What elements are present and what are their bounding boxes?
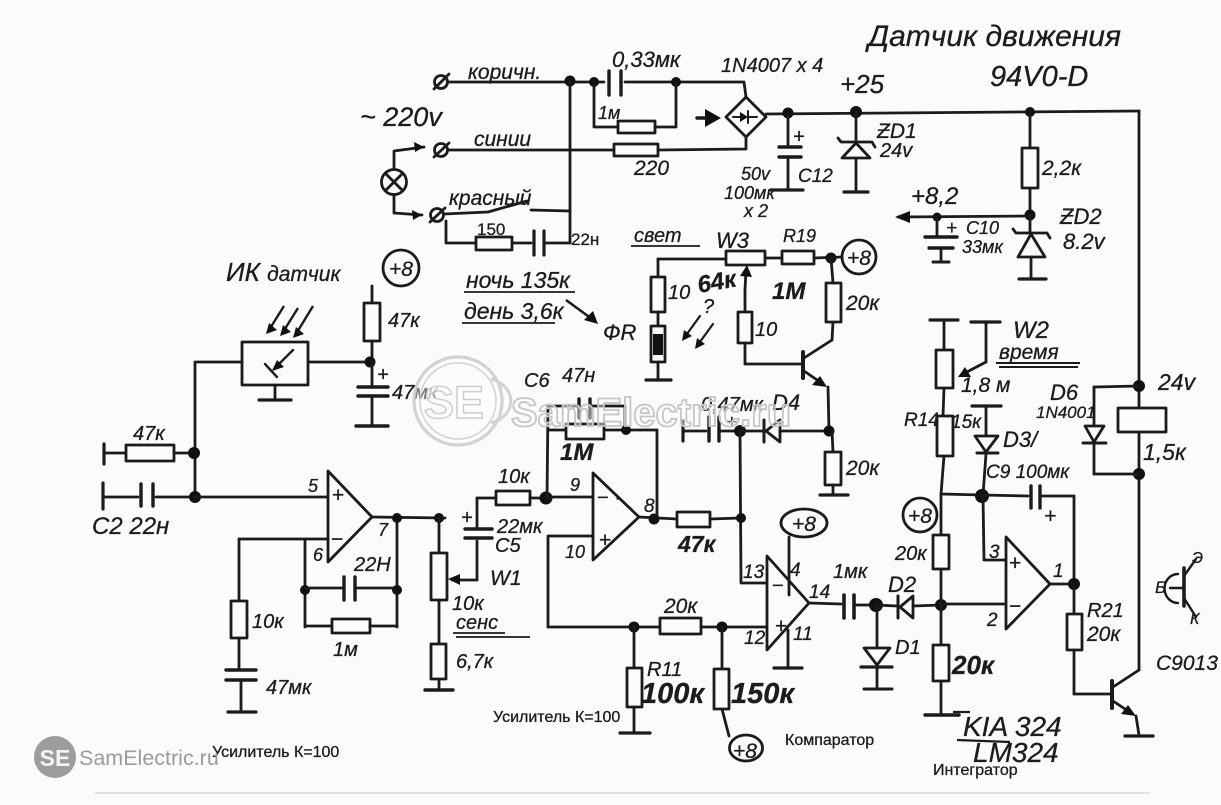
svg-text:10: 10 bbox=[565, 542, 585, 562]
photoresistor FR bbox=[651, 326, 665, 379]
svg-text:8: 8 bbox=[644, 496, 655, 517]
wire red to switch bbox=[444, 212, 488, 214]
wire main right vertical bbox=[1138, 111, 1141, 670]
svg-text:C2 22н: C2 22н bbox=[92, 513, 169, 540]
svg-text:20к: 20к bbox=[894, 543, 928, 565]
svg-text:К: К bbox=[1190, 611, 1201, 628]
resistor 20k pin12 bbox=[660, 618, 701, 634]
svg-text:24v: 24v bbox=[879, 140, 913, 162]
ground Q2 emitter bbox=[1125, 734, 1153, 737]
svg-text:+: + bbox=[775, 615, 787, 638]
SECTION: mains input bbox=[382, 71, 767, 255]
svg-text:50v: 50v bbox=[741, 164, 771, 184]
wire comparator output bbox=[809, 603, 841, 604]
svg-text:SE: SE bbox=[424, 377, 484, 428]
svg-text:11: 11 bbox=[793, 624, 813, 645]
wire fb2 right leg bbox=[656, 430, 659, 519]
resistor 20k to ground bbox=[825, 431, 841, 494]
node C2 bbox=[189, 491, 201, 503]
node after 1mk bbox=[869, 598, 883, 612]
svg-text:Э: Э bbox=[1192, 550, 1203, 567]
svg-text:R14: R14 bbox=[904, 410, 939, 431]
svg-text:+8: +8 bbox=[847, 247, 871, 270]
svg-text:1,5к: 1,5к bbox=[1143, 439, 1187, 465]
node fb2 bbox=[621, 425, 631, 435]
wire main vertical drop bbox=[569, 81, 572, 243]
node R11 bbox=[629, 622, 640, 633]
capacitor 47mk lower bbox=[226, 670, 256, 712]
resistor R21 20k bbox=[1067, 584, 1082, 694]
svg-text:12: 12 bbox=[744, 628, 766, 649]
svg-text:W1: W1 bbox=[490, 567, 522, 590]
svg-text:+8: +8 bbox=[908, 505, 932, 528]
svg-text:SamElectric.ru: SamElectric.ru bbox=[79, 746, 219, 770]
svg-text:1,8 м: 1,8 м bbox=[961, 374, 1010, 397]
svg-text:1м: 1м bbox=[598, 103, 620, 123]
svg-text:D6: D6 bbox=[1050, 380, 1079, 405]
ground 20k bbox=[820, 493, 848, 496]
svg-text:D3/: D3/ bbox=[1003, 427, 1039, 452]
node emitter D4 bbox=[824, 426, 835, 437]
wire brown to C bbox=[448, 81, 604, 84]
node output U1B bbox=[649, 514, 660, 525]
wire R14 bottom row bbox=[941, 494, 982, 495]
capacitor 47mk IR bbox=[358, 362, 388, 424]
svg-text:W2: W2 bbox=[1013, 317, 1049, 344]
wire box to node bbox=[308, 361, 370, 364]
svg-text:5: 5 bbox=[308, 476, 319, 496]
resistor 150 bbox=[476, 237, 512, 250]
resistor 1m parallel path bbox=[594, 83, 618, 127]
label sens bbox=[453, 612, 530, 637]
node 2,2k bbox=[1025, 107, 1035, 117]
svg-text:+: + bbox=[793, 126, 805, 148]
photodiode inside bbox=[265, 350, 293, 377]
arrow den to FR bbox=[566, 300, 598, 324]
label vremya bbox=[996, 341, 1080, 367]
wire box left down bbox=[195, 362, 242, 497]
label den 3,6k bbox=[462, 298, 565, 324]
capacitor 0,47mk bbox=[683, 417, 740, 441]
node integrator ref bbox=[975, 489, 989, 503]
wire blue bbox=[448, 149, 614, 152]
wire pin9 bbox=[546, 496, 593, 499]
wire output pin1 bbox=[1050, 583, 1074, 586]
wire 20k to comparator bbox=[701, 626, 767, 629]
svg-text:Усилитель К=100: Усилитель К=100 bbox=[212, 744, 339, 761]
diode D2 bbox=[876, 596, 941, 618]
svg-text:−: − bbox=[1009, 595, 1021, 618]
wire R19 to +8 bbox=[814, 257, 842, 258]
terminal red wire bbox=[430, 208, 445, 222]
svg-text:2: 2 bbox=[986, 610, 998, 631]
svg-text:100к: 100к bbox=[641, 678, 705, 710]
svg-text:свет: свет bbox=[634, 225, 682, 247]
wiper W2 arrow bbox=[958, 362, 986, 377]
node IR output bbox=[365, 357, 376, 368]
svg-text:сенс: сенс bbox=[456, 612, 498, 634]
transistor C9013 symbol bbox=[1165, 559, 1196, 617]
svg-text:10: 10 bbox=[668, 282, 690, 304]
svg-text:ƵD2: ƵD2 bbox=[1059, 204, 1102, 229]
op-amp U1B bbox=[593, 473, 639, 560]
terminal C2 left bbox=[101, 483, 104, 509]
wire fb2 left leg bbox=[547, 406, 548, 498]
svg-text:−: − bbox=[331, 528, 343, 551]
lamp bbox=[382, 170, 407, 195]
node pin9 input bbox=[540, 492, 553, 505]
svg-text:D1: D1 bbox=[895, 637, 921, 659]
svg-text:47мк: 47мк bbox=[266, 677, 313, 699]
wire emitter down bbox=[828, 387, 829, 431]
svg-text:20к: 20к bbox=[951, 650, 996, 680]
op-amp U1D integrator bbox=[1006, 537, 1050, 629]
svg-text:150к: 150к bbox=[731, 678, 795, 710]
wire pin11 ground bbox=[787, 630, 790, 667]
resistor 10 wiper bbox=[738, 290, 752, 364]
wire switch to vertical bbox=[531, 210, 570, 211]
ground IR box bbox=[259, 385, 291, 400]
capacitor C6 47n bbox=[548, 399, 625, 430]
wire 150 to cap bbox=[512, 242, 531, 245]
svg-text:x 2: x 2 bbox=[743, 201, 768, 221]
svg-text:C12: C12 bbox=[798, 166, 833, 187]
svg-text:C10: C10 bbox=[966, 218, 999, 238]
potentiometer W1 bbox=[431, 518, 447, 644]
wire down to 20k top bbox=[940, 494, 943, 535]
resistor 150k bbox=[714, 627, 729, 736]
svg-text:Датчик движения: Датчик движения bbox=[865, 20, 1121, 53]
svg-text:C6: C6 bbox=[524, 370, 550, 392]
svg-text:день 3,6к: день 3,6к bbox=[464, 298, 565, 324]
svg-text:красный: красный bbox=[449, 187, 532, 210]
transistor Q1 bbox=[803, 340, 832, 387]
supply +8 circle integrator bbox=[903, 498, 937, 532]
watermark corner logo bbox=[34, 736, 76, 778]
arrows to FR bbox=[682, 316, 713, 349]
op-amp U1C comparator bbox=[767, 556, 809, 650]
SECTION: power supply right bbox=[766, 106, 1139, 670]
svg-text:синии: синии bbox=[474, 128, 531, 151]
svg-text:− ·: − · bbox=[597, 487, 621, 509]
svg-text:20к: 20к bbox=[845, 457, 880, 480]
diode D6 flyback bbox=[1083, 386, 1139, 474]
svg-text:C5: C5 bbox=[495, 535, 521, 557]
svg-text:220: 220 bbox=[633, 157, 669, 180]
svg-text:1М: 1М bbox=[560, 439, 594, 466]
wire top light row bbox=[658, 258, 726, 261]
capacitor 1mk bbox=[844, 595, 876, 618]
node relay top bbox=[1133, 380, 1145, 392]
svg-text:1мк: 1мк bbox=[833, 561, 869, 583]
svg-text:+: + bbox=[599, 529, 611, 552]
resistor 10 upper bbox=[651, 259, 665, 326]
svg-text:C9 100мк: C9 100мк bbox=[986, 462, 1070, 483]
resistor 10k to cap bbox=[231, 539, 247, 668]
node ZD1 bbox=[850, 106, 862, 118]
svg-text:1М: 1М bbox=[772, 278, 806, 305]
wire pin4 supply bbox=[788, 537, 791, 595]
node C10 bbox=[933, 213, 942, 222]
resistor 6,7k bbox=[431, 644, 446, 689]
wire +25 rail bbox=[766, 111, 1139, 114]
svg-text:время: время bbox=[999, 341, 1059, 364]
bridge inner diode bbox=[733, 111, 757, 123]
IR sensor box bbox=[242, 342, 308, 385]
wire 220 to bridge bottom bbox=[658, 137, 746, 150]
svg-text:8.2v: 8.2v bbox=[1063, 229, 1107, 254]
zener ZD1 bbox=[838, 112, 875, 192]
svg-text:C9013: C9013 bbox=[1156, 652, 1218, 675]
wire C to bridge top bbox=[625, 82, 746, 97]
resistor 10k series bbox=[477, 491, 546, 505]
svg-text:−: − bbox=[772, 575, 784, 597]
scan line bottom bbox=[95, 792, 1150, 794]
wire pin10 bbox=[548, 536, 593, 627]
node right of cap bbox=[671, 77, 681, 87]
label svet bbox=[631, 225, 700, 247]
resistor 1m feedback bbox=[305, 619, 397, 633]
node 1m tap bbox=[589, 77, 599, 87]
diode D4 bbox=[740, 420, 829, 442]
op-amp U1A bbox=[328, 471, 372, 562]
transistor Q2 output bbox=[1112, 670, 1139, 735]
SECTION: second amplifier bbox=[540, 399, 742, 627]
svg-text:6: 6 bbox=[313, 545, 324, 565]
node fb left bbox=[300, 585, 310, 595]
svg-text:+: + bbox=[332, 484, 344, 507]
node C12 bbox=[783, 108, 794, 119]
resistor R11 100k bbox=[627, 627, 642, 732]
SECTION: watermarks bbox=[34, 306, 1150, 793]
svg-text:47к: 47к bbox=[677, 531, 717, 557]
svg-text:20к: 20к bbox=[1086, 623, 1121, 646]
wire pin12 row bbox=[548, 626, 660, 629]
svg-text:SE: SE bbox=[40, 745, 71, 771]
svg-text:R21: R21 bbox=[1087, 600, 1124, 622]
svg-text:+8,2: +8,2 bbox=[911, 183, 958, 210]
watermark center logo bbox=[414, 357, 511, 445]
wire lamp arrow up bbox=[394, 147, 424, 169]
svg-text:D2: D2 bbox=[888, 572, 916, 597]
svg-text:7: 7 bbox=[378, 520, 389, 540]
ground 6,7k bbox=[425, 688, 453, 691]
wire +8,2 arrow bbox=[898, 216, 1030, 217]
svg-text:20к: 20к bbox=[845, 292, 880, 315]
resistor 20k upper bbox=[933, 535, 949, 605]
zener ZD2 bbox=[1013, 215, 1050, 279]
svg-text:+: + bbox=[1044, 505, 1056, 528]
wire R21 to base bbox=[1074, 693, 1111, 696]
SECTION: integrator and timer bbox=[903, 320, 1153, 736]
wire pin5 bbox=[195, 496, 328, 499]
switch blade bbox=[488, 201, 527, 212]
SECTION: relay output bbox=[1083, 380, 1196, 617]
svg-text:+: + bbox=[946, 218, 957, 239]
ground 20k lower bbox=[925, 713, 959, 716]
wire output U1A bbox=[372, 517, 445, 518]
svg-text:100мк: 100мк bbox=[724, 183, 776, 203]
svg-text:13: 13 bbox=[743, 562, 765, 583]
terminal brown wire bbox=[434, 74, 449, 89]
svg-text:+: + bbox=[377, 364, 389, 386]
supply +8 circle IR bbox=[383, 250, 419, 286]
svg-text:Усилитель К=100: Усилитель К=100 bbox=[493, 709, 620, 726]
svg-text:ФR: ФR bbox=[603, 320, 636, 345]
capacitor C5 22mk bbox=[465, 498, 492, 580]
svg-text:22н: 22н bbox=[571, 230, 599, 249]
ground 47mk bbox=[356, 424, 388, 427]
svg-text:Компаратор: Компаратор bbox=[785, 732, 874, 749]
potentiometer W2 bbox=[936, 350, 953, 416]
wire D4 node down to comparator bbox=[740, 431, 767, 583]
wire cap to vertical bbox=[546, 242, 570, 245]
wire feedback right leg bbox=[396, 518, 399, 627]
svg-text:47к: 47к bbox=[133, 423, 166, 445]
svg-text:22Н: 22Н bbox=[353, 554, 391, 576]
node +8,2 bbox=[1025, 210, 1036, 221]
node output bbox=[1068, 578, 1080, 590]
bridge rectifier 1N4007 x4 bbox=[726, 97, 766, 137]
resistor 47k output bbox=[677, 512, 741, 527]
svg-text:W3: W3 bbox=[716, 228, 750, 253]
node 150k bbox=[717, 622, 728, 633]
terminal blue wire bbox=[434, 143, 449, 157]
potentiometer W3 bbox=[726, 251, 765, 265]
ground FR bbox=[646, 378, 671, 381]
svg-text:2,2к: 2,2к bbox=[1041, 157, 1082, 180]
node D4 anode bbox=[734, 425, 746, 437]
connector plug at bridge bbox=[697, 109, 721, 127]
IR arrows bbox=[266, 306, 313, 338]
resistor 47k input bbox=[104, 445, 193, 461]
svg-text:+: + bbox=[1009, 552, 1021, 575]
svg-text:+8: +8 bbox=[792, 513, 816, 536]
svg-text:+25: +25 bbox=[840, 69, 885, 99]
svg-text:4: 4 bbox=[790, 560, 801, 581]
rail W2 left bbox=[930, 320, 958, 350]
svg-text:94V0-D: 94V0-D bbox=[990, 61, 1088, 93]
capacitor 0,33mk bbox=[609, 71, 621, 95]
node 47k bbox=[188, 447, 200, 459]
diode D1 bbox=[861, 606, 892, 687]
SECTION: comparator bbox=[548, 509, 947, 761]
svg-text:1N4007 x 4: 1N4007 x 4 bbox=[721, 55, 823, 77]
SECTION: photoresistor / W3 bbox=[646, 240, 876, 583]
resistor 220 bbox=[614, 144, 658, 156]
svg-text:10к: 10к bbox=[252, 611, 285, 633]
resistor 47k pullup bbox=[364, 286, 380, 362]
wire pin6 bbox=[239, 538, 328, 541]
terminal 0,47mk left bbox=[681, 421, 684, 441]
node R19 bbox=[826, 253, 837, 264]
rail W2 right bbox=[971, 322, 1000, 362]
wire output U1B bbox=[639, 517, 677, 519]
supply +8 circle W3 bbox=[842, 240, 876, 274]
svg-text:15к: 15к bbox=[951, 412, 982, 433]
resistor 20k lower bbox=[933, 605, 949, 713]
svg-text:3: 3 bbox=[989, 542, 1000, 563]
svg-text:?: ? bbox=[703, 296, 715, 318]
svg-text:14: 14 bbox=[809, 582, 830, 603]
resistor 20k collector bbox=[826, 258, 841, 340]
svg-text:10к: 10к bbox=[498, 466, 531, 488]
svg-text:6,7к: 6,7к bbox=[456, 651, 495, 673]
svg-text:SamElectric.ru: SamElectric.ru bbox=[511, 391, 791, 435]
node D2 cathode bbox=[935, 599, 947, 611]
node W1 top bbox=[434, 513, 444, 523]
svg-text:Б: Б bbox=[1155, 578, 1166, 597]
ground D1 bbox=[864, 688, 892, 691]
svg-text:+: + bbox=[461, 507, 473, 529]
svg-text:Интегратор: Интегратор bbox=[933, 762, 1018, 779]
resistor 2,2k bbox=[1022, 112, 1038, 215]
diode D3 bbox=[975, 436, 998, 495]
capacitor C2 22n bbox=[103, 484, 195, 506]
resistor R14 15k bbox=[937, 416, 953, 494]
svg-text:9: 9 bbox=[570, 475, 580, 495]
svg-text:20к: 20к bbox=[663, 595, 698, 618]
svg-text:47н: 47н bbox=[562, 365, 595, 387]
node relay bottom bbox=[1133, 468, 1145, 480]
svg-text:ночь 135к: ночь 135к bbox=[466, 267, 571, 293]
node comp input bbox=[736, 513, 746, 523]
ground pin11 bbox=[774, 666, 802, 669]
capacitor C12 bbox=[771, 113, 803, 190]
node output U1A bbox=[392, 513, 402, 523]
wire pin3 bbox=[983, 496, 1006, 560]
wiper W3 arrow bbox=[740, 265, 752, 290]
resistor R19 bbox=[782, 251, 814, 264]
terminal 47k left bbox=[102, 444, 105, 464]
supply +8 circle 150k bbox=[730, 735, 763, 761]
wire wiper to Q1 base bbox=[745, 363, 802, 366]
relay coil 1,5k bbox=[1118, 408, 1166, 432]
node brown/vertical bbox=[565, 76, 576, 87]
capacitor 22n snubber bbox=[534, 231, 544, 255]
svg-text:коричн.: коричн. bbox=[468, 61, 541, 84]
svg-text:+8: +8 bbox=[389, 258, 413, 281]
label noch 135k bbox=[464, 267, 575, 293]
resistor 1M feedback bbox=[548, 424, 657, 439]
node fb right bbox=[392, 585, 402, 595]
supply +8 ellipse comparator bbox=[781, 509, 827, 537]
rail D3 top bbox=[972, 406, 1001, 435]
svg-text:24v: 24v bbox=[1157, 369, 1197, 395]
capacitor 22n feedback bbox=[305, 577, 397, 600]
svg-text:1м: 1м bbox=[333, 639, 358, 661]
wire lamp arrow down bbox=[394, 195, 422, 215]
svg-text:0,33мк: 0,33мк bbox=[612, 47, 682, 72]
wiper W1 arrow bbox=[448, 574, 477, 585]
ground R11 bbox=[620, 731, 650, 734]
wire snubber down bbox=[446, 221, 476, 243]
capacitor C9 100mk bbox=[982, 486, 1074, 584]
svg-text:150: 150 bbox=[477, 220, 505, 239]
svg-text:1: 1 bbox=[1053, 561, 1064, 582]
capacitor C10 bbox=[925, 217, 957, 262]
svg-text:R19: R19 bbox=[783, 226, 816, 246]
SECTION: IR sensor and first amplifier bbox=[103, 250, 546, 712]
svg-text:33мк: 33мк bbox=[962, 237, 1004, 257]
wire pin2 bbox=[941, 603, 1006, 606]
svg-text:10: 10 bbox=[755, 319, 777, 341]
wire W3 to R19 bbox=[765, 257, 782, 260]
svg-text:47к: 47к bbox=[388, 310, 421, 332]
svg-text:~ 220v: ~ 220v bbox=[360, 102, 443, 132]
wire feedback left leg bbox=[304, 539, 307, 627]
svg-text:1N4001: 1N4001 bbox=[1036, 403, 1096, 422]
